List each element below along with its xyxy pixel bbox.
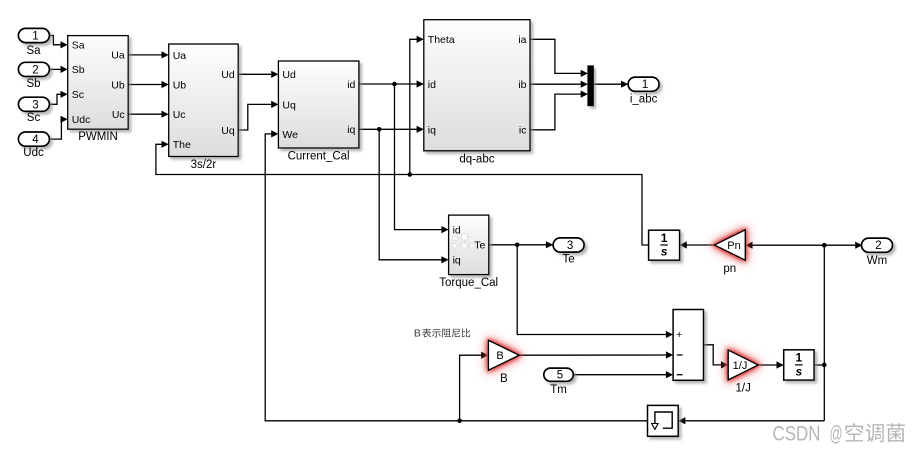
- svg-text:ia: ia: [518, 34, 526, 46]
- svg-text:+: +: [676, 329, 682, 341]
- svg-text:1: 1: [796, 351, 803, 365]
- svg-text:We: We: [282, 129, 298, 141]
- svg-text:Ub: Ub: [111, 79, 125, 91]
- svg-text:5: 5: [557, 370, 563, 382]
- svg-text:Uc: Uc: [173, 109, 186, 121]
- svg-text:Te: Te: [563, 254, 575, 266]
- svg-text:4: 4: [32, 134, 39, 146]
- svg-text:Udc: Udc: [23, 147, 44, 159]
- svg-text:1: 1: [32, 31, 38, 43]
- svg-text:1: 1: [661, 231, 668, 245]
- svg-text:iq: iq: [453, 255, 461, 267]
- svg-text:Sc: Sc: [27, 112, 41, 124]
- svg-text:iq: iq: [347, 124, 355, 136]
- svg-text:pn: pn: [723, 263, 736, 275]
- svg-text:Ua: Ua: [111, 50, 125, 62]
- svg-text:i_abc: i_abc: [630, 94, 658, 106]
- svg-text:dq-abc: dq-abc: [459, 153, 494, 165]
- svg-text:2: 2: [32, 64, 38, 76]
- svg-text:Sa: Sa: [72, 40, 85, 52]
- svg-text:Te: Te: [474, 240, 485, 252]
- svg-text:1/J: 1/J: [736, 383, 751, 395]
- svg-text:id: id: [347, 79, 355, 91]
- svg-text:Pn: Pn: [727, 240, 740, 252]
- svg-text:Ua: Ua: [173, 50, 187, 62]
- svg-text:Udc: Udc: [72, 114, 91, 126]
- svg-text:B: B: [496, 350, 503, 362]
- svg-text:Sc: Sc: [72, 89, 84, 101]
- svg-text:Current_Cal: Current_Cal: [288, 151, 350, 163]
- svg-text:s: s: [661, 245, 668, 259]
- svg-text:@: @: [830, 423, 843, 446]
- svg-text:iq: iq: [428, 125, 436, 137]
- svg-text:Theta: Theta: [428, 34, 455, 46]
- svg-text:ib: ib: [518, 79, 526, 91]
- svg-text:The: The: [173, 139, 191, 151]
- svg-text:2: 2: [875, 240, 881, 252]
- svg-text:Ud: Ud: [221, 69, 235, 81]
- svg-text:3: 3: [32, 99, 38, 111]
- svg-text:3: 3: [567, 240, 573, 252]
- svg-text:B: B: [414, 328, 421, 340]
- svg-text:3s/2r: 3s/2r: [191, 159, 217, 171]
- svg-text:Uq: Uq: [282, 99, 296, 111]
- svg-text:id: id: [428, 79, 436, 91]
- svg-text:id: id: [453, 225, 461, 237]
- svg-text:Torque_Cal: Torque_Cal: [439, 277, 498, 289]
- svg-text:1/J: 1/J: [733, 360, 748, 372]
- svg-text:PWMIN: PWMIN: [78, 131, 118, 143]
- svg-text:Ud: Ud: [282, 69, 296, 81]
- svg-text:Uq: Uq: [221, 125, 235, 137]
- svg-text:Sa: Sa: [26, 45, 41, 57]
- svg-text:B: B: [500, 373, 508, 385]
- svg-text:Sb: Sb: [72, 64, 85, 76]
- svg-text:Tm: Tm: [550, 384, 567, 396]
- svg-text:1: 1: [642, 79, 648, 91]
- svg-text:Sb: Sb: [26, 78, 40, 90]
- svg-text:Ub: Ub: [173, 80, 187, 92]
- svg-text:Uc: Uc: [112, 109, 125, 121]
- svg-text:Wm: Wm: [867, 255, 887, 267]
- svg-text:CSDN: CSDN: [773, 423, 821, 446]
- svg-text:s: s: [796, 365, 803, 379]
- svg-text:ic: ic: [519, 125, 527, 137]
